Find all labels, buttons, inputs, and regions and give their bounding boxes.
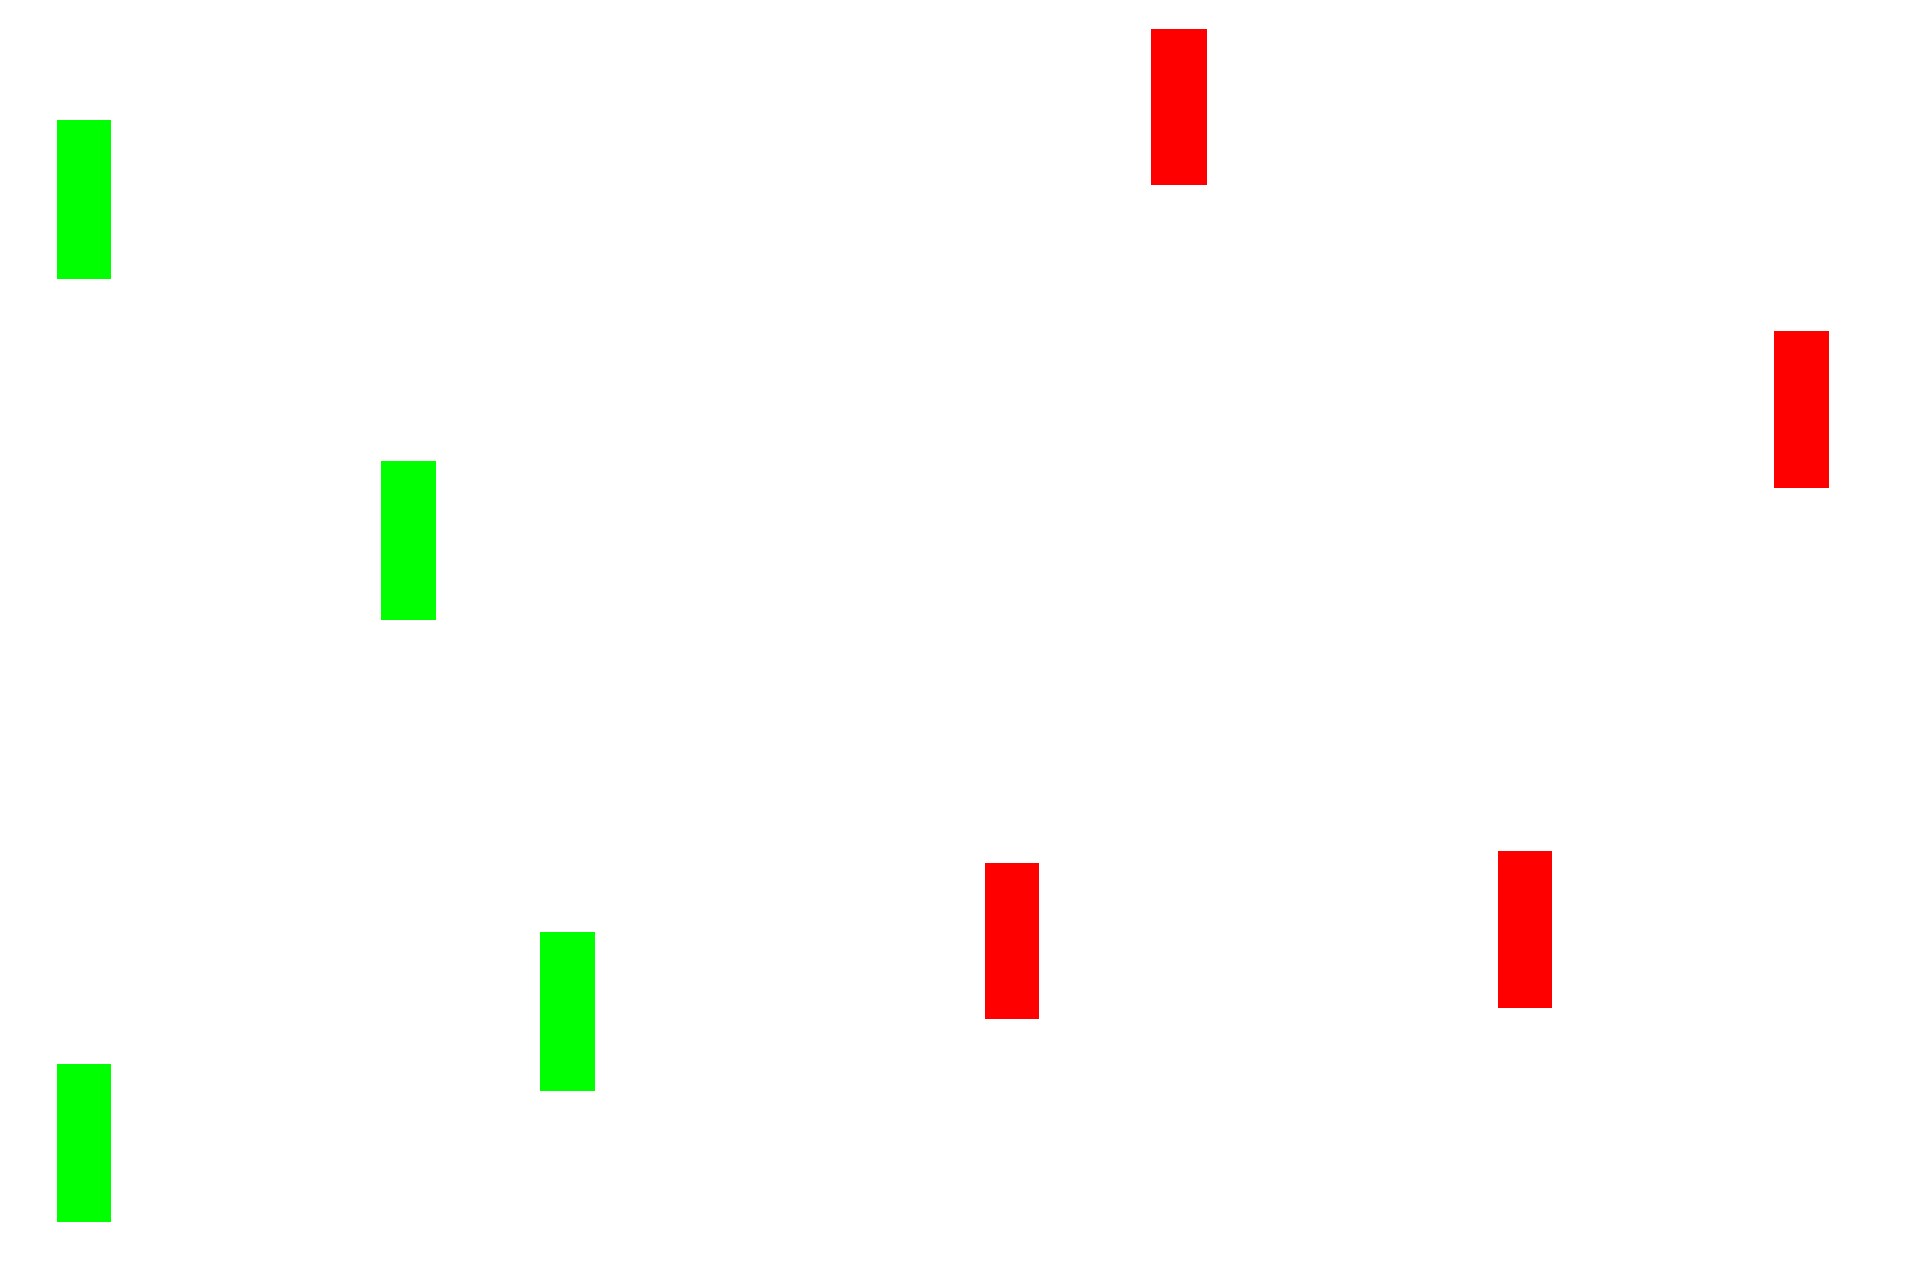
red candle body 5 (bottom-center) <box>985 863 1039 1019</box>
green candle body 7 (bottom-middle) <box>540 932 595 1091</box>
green candle body 4 (mid-left) <box>381 461 436 620</box>
green candle body 1 (top-left) <box>57 120 111 279</box>
red candle body 2 (top-middle) <box>1151 29 1207 185</box>
red candle body 3 (right) <box>1774 331 1829 488</box>
green candle body 8 (bottom-left) <box>57 1064 111 1222</box>
red candle body 6 (bottom-right) <box>1498 851 1552 1008</box>
